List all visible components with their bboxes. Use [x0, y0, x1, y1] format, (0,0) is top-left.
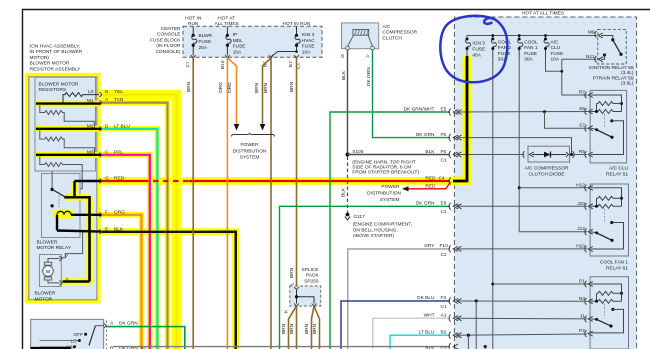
svg-text:B: B — [105, 89, 108, 95]
row M1 wire — [36, 102, 101, 104]
svg-text:BLOWER: BLOWER — [35, 291, 56, 297]
relay 51 armature dashed — [604, 114, 606, 127]
highlight B YEL wire — [101, 95, 177, 349]
splice S105 dot — [346, 153, 350, 157]
motor internal wires to pins — [48, 259, 60, 283]
arrowhead power distribution left — [402, 186, 409, 191]
motor circle M — [43, 266, 54, 277]
svg-text:RED: RED — [114, 176, 125, 182]
svg-text:ALL TIMES: ALL TIMES — [214, 21, 238, 27]
blower assembly box — [29, 77, 97, 300]
wire N11 to R7 — [562, 59, 597, 95]
svg-text:SPLICE: SPLICE — [302, 267, 319, 273]
wire GRY to F10 — [348, 249, 450, 349]
svg-text:BLK: BLK — [340, 187, 346, 197]
svg-text:C1: C1 — [441, 209, 447, 215]
highlight IGN3 feed wire — [452, 56, 467, 181]
wire F ORG — [102, 215, 142, 349]
pin P1 — [585, 281, 593, 288]
wire C PPL — [102, 155, 150, 349]
svg-text:BLOWER: BLOWER — [37, 240, 58, 246]
wire G RED solid part — [102, 180, 450, 182]
relay 51 NO contact to R5 — [610, 119, 613, 122]
svg-text:FUSE: FUSE — [199, 39, 212, 45]
ground G117 — [346, 213, 350, 217]
pin E8 — [449, 203, 461, 210]
svg-text:IN FRONT OF BLOWER: IN FRONT OF BLOWER — [30, 49, 83, 55]
svg-text:A/C: A/C — [551, 40, 560, 46]
svg-text:OFF: OFF — [73, 332, 83, 338]
relay 61 blade — [591, 232, 597, 233]
relay pivot dot — [50, 188, 53, 191]
svg-text:S5: S5 — [579, 106, 585, 112]
fuse IGN 3 40A — [466, 39, 471, 56]
wire ORG from B10 diagonal to arrow — [227, 58, 236, 125]
relay pivot stub — [51, 171, 53, 189]
svg-text:J12: J12 — [577, 226, 585, 232]
pin S7 — [585, 125, 593, 132]
svg-text:10A: 10A — [551, 57, 560, 63]
svg-text:C2: C2 — [441, 252, 447, 258]
svg-text:ORG: ORG — [218, 82, 224, 93]
switch blade — [89, 326, 95, 346]
highlighter border around blower assembly — [27, 75, 99, 302]
interior wire F5 drop to diode output — [456, 138, 572, 155]
blower motor relay sub-box — [42, 174, 81, 238]
highlight F ORG wire — [101, 215, 142, 349]
pin M9 chevron — [595, 31, 603, 38]
relay 51 R7 internal — [591, 95, 622, 112]
resistor R1 (top zigzag to L0) — [63, 93, 99, 103]
relay coil bumps — [57, 211, 71, 214]
motor brush bar top — [44, 262, 51, 265]
svg-text:HVAC: HVAC — [302, 38, 316, 44]
pin C3 — [449, 343, 458, 349]
wire IGN3 fuse black drop to C4 — [453, 56, 467, 181]
svg-text:BRN: BRN — [289, 323, 295, 334]
svg-text:ORG: ORG — [114, 209, 125, 215]
switch OFF contact dot — [84, 333, 87, 336]
svg-text:BLK: BLK — [341, 70, 347, 80]
wire A/C CLU fuse feed — [546, 59, 562, 72]
pin R5 — [585, 151, 593, 158]
splice pack box — [290, 286, 321, 306]
svg-text:P1: P1 — [579, 279, 585, 285]
svg-text:G: G — [105, 176, 109, 182]
svg-text:ORG: ORG — [227, 82, 233, 93]
svg-text:IGN 3: IGN 3 — [302, 32, 315, 38]
svg-text:SIDE OF RADIATOR, 6 CM: SIDE OF RADIATOR, 6 CM — [352, 164, 411, 170]
svg-text:ON BELL HOUSING,: ON BELL HOUSING, — [353, 227, 398, 233]
svg-text:FUSE: FUSE — [472, 47, 485, 53]
COOL FAN 2 relay box — [590, 277, 628, 349]
pin H12 — [585, 185, 593, 192]
resistor R2 loop M1-M2 — [40, 104, 95, 129]
svg-text:POWER: POWER — [381, 184, 400, 190]
svg-text:C4: C4 — [439, 175, 445, 181]
svg-text:L0: L0 — [88, 89, 94, 95]
svg-text:DK BLU: DK BLU — [417, 295, 435, 301]
svg-text:(3.6L): (3.6L) — [621, 81, 634, 87]
F row inside box — [71, 214, 101, 216]
svg-text:B: B — [341, 54, 344, 60]
svg-text:L: L — [290, 282, 296, 285]
pin F5 — [449, 134, 461, 141]
svg-text:TAN: TAN — [114, 97, 124, 103]
svg-text:(ENGINE HARN, TOP RIGHT: (ENGINE HARN, TOP RIGHT — [352, 159, 416, 165]
pin E chevron — [100, 229, 103, 234]
svg-text:A/C CLU: A/C CLU — [609, 165, 628, 171]
fuse IGN 3 HVAC 10A — [295, 26, 300, 51]
G row inside box — [75, 180, 102, 182]
wire DK GRN/WHT to E5 — [330, 112, 450, 349]
wire D LT BLU — [102, 129, 157, 349]
internal link IGN3 fuse to B7 — [271, 52, 297, 57]
svg-text:BRN: BRN — [312, 323, 318, 334]
relay output wire to G row — [66, 181, 90, 198]
svg-text:(ON HVAC ASSEMBLY;: (ON HVAC ASSEMBLY; — [30, 44, 81, 50]
pin J12 — [585, 229, 593, 236]
switch connector dashed line — [106, 321, 108, 349]
relay 62 armature dashed — [604, 304, 606, 316]
svg-text:FUSE: FUSE — [302, 44, 315, 50]
wire WHT to A1 — [373, 318, 450, 349]
svg-text:M: M — [46, 269, 50, 275]
svg-text:MOTOR RELAY: MOTOR RELAY — [37, 245, 72, 251]
COOL FAN 2 fuse vertical feed — [492, 59, 494, 349]
relay 62 coil — [597, 299, 622, 303]
svg-text:SP250: SP250 — [304, 278, 319, 284]
svg-text:F7: F7 — [186, 61, 192, 67]
svg-text:WHT: WHT — [424, 312, 435, 318]
switch A output line — [95, 325, 104, 327]
motor A feed thick wire — [63, 280, 90, 283]
svg-text:E: E — [105, 226, 108, 232]
svg-text:BRN: BRN — [186, 81, 192, 92]
pin L0/B chevron — [100, 92, 103, 97]
svg-text:BRN: BRN — [263, 82, 269, 93]
svg-text:POWER: POWER — [240, 142, 259, 148]
svg-text:E7: E7 — [288, 61, 294, 67]
svg-text:BLK: BLK — [425, 149, 435, 155]
junction dot on F3 with drop — [475, 299, 478, 302]
svg-text:CLU: CLU — [551, 45, 561, 51]
interior junction E5/S7 — [543, 110, 546, 113]
diode box right pin — [566, 151, 574, 158]
clutch pin circles — [346, 46, 350, 50]
highlight D LT BLU wire — [101, 129, 157, 349]
svg-text:FROM STARTER BREAKOUT): FROM STARTER BREAKOUT) — [352, 170, 419, 176]
pin J10 — [585, 203, 593, 210]
svg-text:PPL: PPL — [114, 149, 123, 155]
wire fuse to P1 — [493, 283, 591, 285]
pin arcs on right box edge — [449, 109, 461, 349]
svg-text:BRN: BRN — [281, 323, 287, 334]
diode box left pin — [523, 151, 534, 158]
relay 51 coil left junction — [591, 104, 597, 112]
svg-text:CONSOLE: CONSOLE — [157, 32, 180, 38]
blower motor sub-box — [40, 255, 62, 287]
relay 61 armature dashed — [604, 209, 606, 222]
svg-text:CLUTCH: CLUTCH — [382, 35, 402, 41]
resistor R3 loop M2-M3 — [40, 129, 95, 155]
svg-text:MDL: MDL — [233, 38, 243, 44]
COOL FAN 1 fuse vertical feed — [519, 59, 587, 232]
splice pin 2 chevron — [312, 304, 317, 307]
svg-text:HOT IN RUN: HOT IN RUN — [283, 21, 311, 27]
svg-text:MOTOR: MOTOR — [35, 296, 53, 302]
clutch coil hatched rect — [353, 30, 369, 36]
pin F7 chevron — [191, 55, 196, 58]
svg-text:RUN: RUN — [188, 21, 199, 27]
relay 59 blade — [613, 40, 621, 54]
svg-text:COMPRESSOR: COMPRESSOR — [382, 30, 417, 36]
svg-text:DK GRN/WHT: DK GRN/WHT — [404, 106, 435, 112]
svg-text:BLOWER MOTOR: BLOWER MOTOR — [39, 81, 79, 87]
pin N3 — [585, 298, 593, 305]
wire BLK to C3 — [113, 346, 450, 348]
pin P2 — [585, 330, 593, 337]
wire RED stub to power distribution — [408, 182, 451, 189]
relay 62 resistor — [597, 291, 622, 295]
wire E BLK — [102, 232, 236, 349]
yellow highlight on relay output path — [62, 181, 90, 282]
pin S5 — [585, 108, 593, 115]
svg-text:10A: 10A — [233, 49, 242, 55]
wire DK GRN to E8 — [280, 206, 451, 349]
blower switch box — [31, 319, 104, 349]
wire BRN splice out 1 — [289, 306, 297, 349]
relay 51 coil — [597, 110, 622, 114]
svg-text:DK GRN: DK GRN — [366, 67, 372, 86]
resistor R4 loop below M3 — [40, 155, 82, 189]
pin M1/A chevron — [100, 100, 103, 105]
svg-text:M2: M2 — [87, 123, 94, 129]
svg-text:BLK: BLK — [114, 226, 124, 232]
svg-text:HOT AT: HOT AT — [218, 15, 235, 21]
diode element — [532, 154, 566, 156]
highlight A TAN wire — [101, 103, 168, 349]
ignition relay 59 dashed box — [598, 29, 626, 64]
svg-text:F3: F3 — [441, 295, 447, 301]
svg-text:YEL: YEL — [114, 89, 123, 95]
wire BLK dashed to G117 — [347, 157, 349, 213]
A/C compressor clutch box — [342, 23, 379, 49]
switch M1 contact dot — [73, 345, 76, 348]
svg-text:DK GRN: DK GRN — [119, 320, 138, 326]
svg-text:HOT AT ALL TIMES: HOT AT ALL TIMES — [522, 11, 564, 17]
svg-text:LT BLU: LT BLU — [419, 329, 435, 335]
relay 51 blade — [591, 128, 597, 129]
pin F chevron — [100, 212, 103, 217]
pin R7 — [585, 92, 593, 99]
wire B2 to P2 — [456, 334, 587, 335]
A/C compressor clutch diode box — [528, 146, 570, 162]
svg-text:COOL: COOL — [498, 40, 512, 46]
svg-text:MOTOR): MOTOR) — [30, 55, 50, 61]
svg-text:C3: C3 — [441, 345, 447, 349]
svg-text:(ENGINE COMPARTMENT,: (ENGINE COMPARTMENT, — [353, 222, 412, 228]
svg-text:C1: C1 — [441, 158, 447, 164]
svg-text:IP: IP — [233, 32, 238, 38]
arrowhead BRN — [260, 124, 266, 131]
interior wire F6 to diode — [456, 154, 525, 156]
svg-text:BLOWER MOTOR: BLOWER MOTOR — [30, 61, 70, 67]
thick black M1 wire bottom — [31, 347, 71, 349]
svg-text:BRN: BRN — [304, 323, 310, 334]
pin F3 — [449, 298, 461, 305]
svg-text:CLUTCH DIODE: CLUTCH DIODE — [529, 171, 565, 177]
interior wire E5 to S5 — [456, 111, 591, 114]
svg-text:COOL FAN 1: COOL FAN 1 — [600, 259, 628, 265]
wire A DK GRN — [107, 327, 185, 349]
svg-text:RED: RED — [425, 175, 436, 181]
splice pin L chevron — [294, 287, 299, 290]
clutch coil legs — [348, 35, 373, 46]
pin H10 — [585, 246, 593, 253]
fuse A/C CLU 10A — [544, 39, 549, 59]
pin J1 — [585, 316, 593, 323]
switch M1 row line — [40, 346, 73, 348]
relay 61 NO contact to H10 — [610, 221, 613, 224]
svg-text:BRN: BRN — [289, 267, 295, 278]
svg-text:F: F — [105, 209, 108, 215]
svg-text:F10: F10 — [440, 243, 449, 249]
relay NC contact dot — [50, 204, 53, 207]
yellow highlight on row M2 — [36, 126, 99, 132]
wire fuse to H12 — [519, 187, 591, 189]
junction dot on C3 with drop — [484, 345, 487, 348]
relay armature dashed link — [58, 192, 60, 207]
relay 61 coil — [597, 204, 622, 208]
svg-text:P2: P2 — [579, 328, 585, 334]
svg-text:DK GRN: DK GRN — [416, 132, 435, 138]
svg-text:RESISTORS: RESISTORS — [39, 87, 67, 93]
arrowhead ORG — [234, 124, 240, 131]
splice junction dot — [295, 295, 298, 298]
svg-text:CONSOLE): CONSOLE) — [155, 49, 180, 55]
svg-text:D: D — [105, 123, 109, 129]
blue pen circle annotation — [440, 16, 507, 82]
relay blade — [52, 189, 66, 197]
highlight E BLK wire — [101, 232, 236, 349]
svg-text:ABOVE STARTER): ABOVE STARTER) — [353, 233, 395, 239]
motor pin A chevron — [60, 280, 63, 285]
svg-text:A/C: A/C — [382, 24, 391, 30]
svg-text:FAN 1: FAN 1 — [524, 45, 538, 51]
svg-text:IGNITION RELAY 59: IGNITION RELAY 59 — [589, 65, 634, 71]
svg-text:E5: E5 — [441, 106, 447, 112]
wire BRN from E7/C1 to splice — [296, 58, 298, 286]
pin A1 — [449, 315, 461, 322]
svg-text:R7: R7 — [579, 89, 585, 95]
svg-text:PTRAIN RELAY 59: PTRAIN RELAY 59 — [593, 75, 634, 81]
svg-text:BLWR: BLWR — [199, 33, 213, 39]
relay 62 P1 internal — [591, 284, 622, 301]
svg-text:FUSE: FUSE — [498, 51, 511, 57]
E row inside box — [57, 231, 101, 232]
relay blade end dot — [64, 196, 67, 199]
motor B return wire — [62, 232, 83, 258]
relay 51 resistor — [597, 102, 622, 106]
A/C CLU relay 51 box — [590, 90, 627, 162]
svg-text:LO: LO — [71, 338, 78, 344]
svg-text:25A: 25A — [199, 45, 208, 51]
svg-text:30A: 30A — [524, 57, 533, 63]
wire BRN splice out 3 — [312, 306, 315, 349]
svg-text:COOL: COOL — [524, 40, 538, 46]
svg-text:C1: C1 — [441, 304, 447, 310]
svg-text:SYSTEM: SYSTEM — [380, 197, 400, 203]
relay 59 N11 contact — [603, 53, 606, 56]
pin B2 — [449, 332, 461, 339]
row M2 wire — [36, 128, 101, 130]
svg-text:FUSE: FUSE — [524, 51, 537, 57]
relay 62 NO contact to P2 — [611, 308, 614, 311]
svg-text:FAN 2: FAN 2 — [498, 45, 512, 51]
svg-text:RED: RED — [425, 183, 436, 189]
wire F10 to H10 — [456, 248, 587, 250]
svg-text:DK GRN: DK GRN — [416, 200, 435, 206]
switch pin A chevron — [104, 323, 107, 328]
svg-text:B10: B10 — [220, 60, 226, 69]
coil left leg down to E row — [56, 215, 58, 231]
pin N11 chevron — [595, 56, 603, 63]
overlay wire E BLK on top of crossings — [215, 232, 236, 345]
svg-text:DISTRIBUTION: DISTRIBUTION — [367, 190, 401, 196]
svg-text:C: C — [105, 149, 109, 155]
wire DK GRN from clutch A — [373, 50, 451, 138]
svg-text:FUSE BLOCK: FUSE BLOCK — [150, 37, 181, 43]
svg-text:BRN: BRN — [289, 81, 295, 92]
pin M3/C chevron — [100, 152, 103, 157]
svg-text:M1: M1 — [87, 98, 94, 104]
relay 59 internals — [601, 36, 613, 40]
pin M2/D chevron — [100, 126, 103, 131]
switch LO contact dot — [78, 339, 81, 342]
underhood fuse block box fill — [454, 17, 636, 349]
splice pin K chevron — [294, 304, 299, 307]
wire BRN from B7 diagonal to arrow — [263, 58, 272, 125]
junction dot on B2 with drop — [467, 334, 470, 337]
svg-text:M3: M3 — [87, 149, 94, 155]
svg-text:(3.4L): (3.4L) — [621, 70, 634, 76]
svg-text:CENTER: CENTER — [161, 26, 181, 32]
brace under arrows — [232, 133, 275, 137]
pin F6 — [449, 151, 461, 158]
svg-text:F5: F5 — [441, 132, 447, 138]
wire BRN splice out 4 — [314, 306, 320, 349]
fuse bus to M9 — [467, 36, 597, 40]
yellow highlight on row M1 — [36, 101, 99, 107]
overlay wire IGN3 black drop on top of crossings — [453, 58, 467, 181]
svg-text:FUSE: FUSE — [551, 51, 564, 57]
svg-text:G117: G117 — [353, 214, 365, 220]
svg-text:10A: 10A — [302, 49, 311, 55]
svg-text:IGN 3: IGN 3 — [472, 41, 485, 47]
svg-text:DISTRIBUTION: DISTRIBUTION — [233, 148, 267, 154]
pin F10 — [449, 245, 461, 252]
fuse BLWR 25A — [192, 26, 197, 55]
wire BLK S105 to F6 — [348, 154, 451, 156]
svg-text:A/C COMPRESSOR: A/C COMPRESSOR — [525, 165, 570, 171]
svg-text:A1: A1 — [441, 312, 447, 318]
blower motor resistors sub-box — [35, 77, 96, 171]
relay 61 resistor — [597, 196, 622, 200]
svg-text:PACK: PACK — [306, 273, 320, 279]
wire LT BLU to B2 — [390, 335, 450, 349]
wire DK BLU to F3 — [341, 301, 450, 349]
